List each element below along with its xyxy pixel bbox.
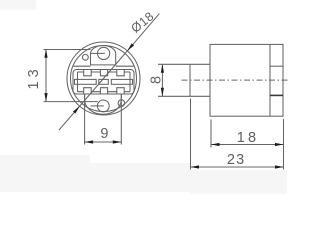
bottom boss around bottom hole [85, 94, 122, 114]
middle bar right segment [111, 79, 132, 84]
bottom hole center dash [91, 105, 104, 107]
side view main body rectangle [210, 44, 283, 116]
dim 9 extension line right [120, 94, 122, 145]
side view nose top edge + dim8 ext [158, 63, 210, 65]
arrowhead dim13 bottom [44, 93, 47, 102]
dim 18+23 extension line right [283, 119, 285, 170]
slot area right rail [129, 72, 131, 92]
middle bar center segment [99, 79, 109, 84]
arrowhead dim8 top [161, 64, 164, 73]
top tab right [117, 70, 124, 76]
arrowhead dim23 left [191, 165, 200, 168]
side view rear column upper line [270, 65, 283, 67]
top tab center [100, 70, 107, 76]
arrowhead dim18 right [275, 143, 284, 146]
side view rear column lower dark line [270, 94, 283, 96]
arrowhead dim9 left [85, 140, 94, 143]
faint page tint bottom-left [0, 155, 90, 192]
side view centerline [182, 79, 290, 81]
svg-text:23: 23 [227, 152, 246, 168]
arrowhead dim8 bottom [161, 88, 164, 97]
dim 9 extension line left [84, 94, 86, 145]
bottom tab left [84, 88, 92, 94]
svg-text:9: 9 [100, 126, 108, 142]
slot area bottom edge segments [78, 91, 131, 93]
middle bar left segment [75, 79, 97, 84]
side view rear flange line [269, 44, 271, 116]
face step chord left of top boss [73, 65, 90, 67]
arrowhead dim9 right [113, 140, 122, 143]
bottom hole [97, 100, 109, 112]
svg-text:Ø18: Ø18 [129, 9, 157, 36]
svg-text:18: 18 [237, 130, 260, 146]
bottom tab center [100, 88, 107, 94]
dia leader line across circle [80, 51, 128, 106]
svg-text:8: 8 [149, 76, 165, 84]
arrowhead dim18 left [211, 143, 220, 146]
dim 18 dimension line [211, 144, 284, 146]
arrowhead dia leader lower (pointing up-right onto circle) [73, 106, 80, 113]
front view outer circle [67, 42, 140, 115]
top hole center dash [91, 52, 105, 54]
top small circle [83, 54, 89, 60]
dim 18 extension line left [210, 119, 212, 147]
bottom small circle [118, 100, 125, 107]
front view inner circle [71, 46, 137, 112]
contact band (middle rounded rectangle) [73, 70, 134, 95]
side view nose left edge [189, 64, 191, 96]
slot area left rail [77, 72, 79, 92]
faint page tint bottom-middle [90, 163, 190, 192]
dia leader line upper tail [127, 14, 159, 51]
arrowhead dim13 top [44, 49, 47, 58]
dim 13 extension line top [44, 49, 91, 51]
dia leader line lower tail [59, 106, 80, 130]
dim 23 dimension line [191, 166, 284, 168]
dim 8 dimension line [161, 64, 163, 96]
top tab left [84, 70, 92, 76]
top boss around top hole [91, 46, 116, 65]
arrowhead dia leader upper (pointing down-left onto circle) [127, 43, 134, 50]
arrowhead dim23 right [275, 165, 284, 168]
top hole [98, 47, 110, 59]
dim 13 extension line bottom [44, 101, 98, 103]
svg-text:13: 13 [26, 65, 42, 89]
face step chord right of top boss [116, 65, 134, 67]
dim 13 dimension line [45, 49, 47, 101]
bottom tab right [117, 88, 124, 94]
slot area top edge segments [78, 71, 131, 73]
faint page tint bottom-right [190, 170, 287, 194]
side view nose bottom edge + dim8 ext [158, 95, 210, 97]
dim 23 extension line left [190, 99, 192, 170]
dim 9 dimension line [85, 141, 122, 143]
faint page tint top-left corner [0, 0, 36, 10]
